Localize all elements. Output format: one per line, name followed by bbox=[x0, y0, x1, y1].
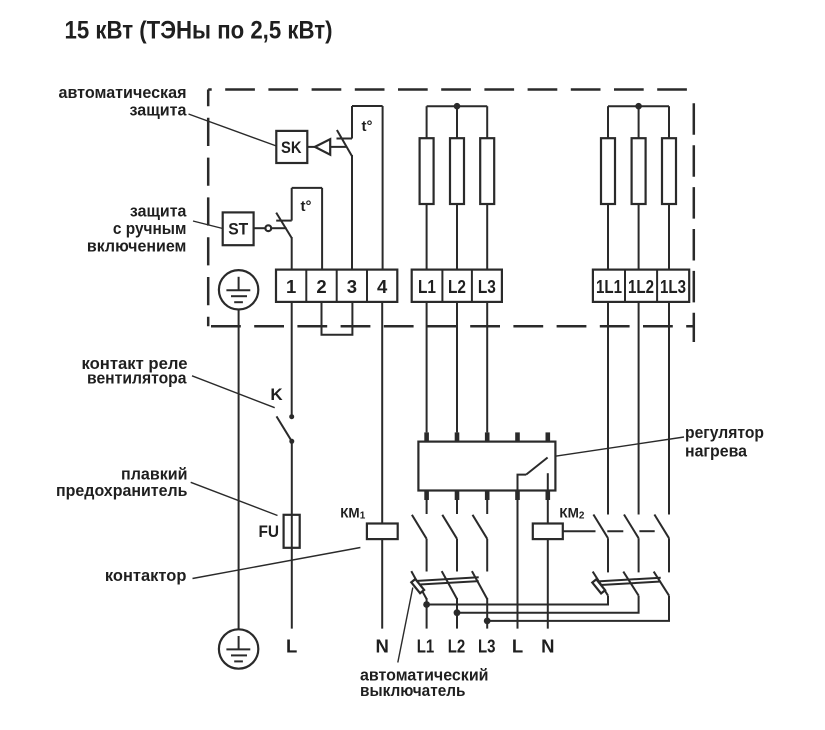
regulator internal switch bbox=[518, 475, 527, 491]
pointer to breaker handle bbox=[398, 588, 413, 663]
junction dot L2 bus bbox=[454, 609, 461, 616]
KM2 contact pole 1 bbox=[593, 515, 608, 573]
KM1 contact pole 3 bbox=[473, 500, 488, 572]
breaker left pole 3 arm bbox=[472, 571, 487, 599]
bus L2 to KM2 breaker pole2 bbox=[457, 596, 639, 613]
svg-text:автоматическая: автоматическая bbox=[59, 83, 187, 102]
wire 1L2 down bbox=[638, 302, 640, 515]
dashed enclosure left border bbox=[207, 90, 210, 327]
svg-text:2: 2 bbox=[316, 276, 326, 297]
wire triangle to SK thermostat arm bbox=[330, 146, 346, 148]
wire L1 to regulator pin1 bbox=[426, 302, 428, 433]
dashed enclosure bottom border bbox=[208, 325, 694, 328]
bank1 phase A wire upper bbox=[426, 106, 428, 138]
heating element R4 bbox=[601, 138, 615, 204]
svg-text:t°: t° bbox=[301, 198, 312, 215]
svg-text:защита: защита bbox=[130, 101, 188, 120]
svg-text:FU: FU bbox=[259, 522, 280, 541]
svg-text:контактор: контактор bbox=[105, 566, 187, 585]
svg-text:1: 1 bbox=[286, 276, 296, 297]
K contact arm bbox=[277, 416, 292, 441]
fixed contact stub bbox=[337, 138, 353, 140]
svg-text:защита: защита bbox=[130, 202, 187, 221]
t-box right leg to terminal 2 bbox=[321, 188, 323, 270]
svg-text:L3: L3 bbox=[478, 636, 496, 657]
node dot bank2 bbox=[635, 103, 642, 110]
contactor coil KM1 bbox=[367, 524, 398, 540]
wire L2 to regulator pin2 bbox=[456, 302, 458, 433]
pointer to SK bbox=[189, 114, 277, 146]
breaker left linkage double bar bbox=[413, 577, 479, 581]
svg-text:SK: SK bbox=[281, 139, 302, 157]
junction dot L1 bus bbox=[423, 601, 430, 608]
t-box left leg lower to terminal 3 bbox=[351, 155, 353, 270]
triangle (arrow contact) bbox=[315, 139, 330, 155]
breaker right pole 1 arm bbox=[593, 572, 608, 596]
KM2 contact pole 2 bbox=[624, 515, 639, 573]
svg-text:15 кВт (ТЭНы по 2,5 кВт): 15 кВт (ТЭНы по 2,5 кВт) bbox=[65, 17, 333, 45]
wire fuse to L bbox=[291, 548, 293, 629]
heating element R1 bbox=[420, 138, 434, 204]
regulator box bbox=[418, 442, 555, 491]
breaker left pole 2 arm bbox=[442, 571, 457, 599]
bank2 phase A wire upper bbox=[607, 106, 609, 138]
pointer to K contact bbox=[192, 376, 275, 408]
terminal block L1 L2 L3 bbox=[412, 270, 502, 302]
regulator top pin ticks bbox=[424, 432, 550, 441]
t-box right leg to terminal 4 bbox=[382, 106, 384, 270]
svg-text:регулятор: регулятор bbox=[685, 423, 764, 442]
ST box U-ST bbox=[223, 212, 254, 245]
wire KM2 coil to N bbox=[547, 539, 549, 629]
bank1 phase C wire upper bbox=[486, 106, 488, 138]
bank2 phase C wire upper bbox=[668, 106, 670, 138]
svg-text:нагрева: нагрева bbox=[685, 442, 748, 461]
breaker left handle bbox=[411, 579, 424, 593]
svg-text:1L2: 1L2 bbox=[628, 276, 654, 297]
breaker left pole 3 wire down bbox=[486, 598, 488, 629]
pointer to ST bbox=[193, 221, 223, 229]
heater bank 1 star bar bbox=[427, 105, 488, 107]
wire 1L3 down bbox=[668, 302, 670, 515]
switch arm bbox=[337, 130, 352, 156]
heating element R5 bbox=[632, 138, 646, 204]
svg-text:K: K bbox=[270, 385, 283, 404]
svg-text:N: N bbox=[541, 636, 554, 657]
svg-text:с ручным: с ручным bbox=[113, 219, 187, 238]
breaker left pole 1 arm bbox=[411, 571, 426, 599]
bank2 phase A wire lower bbox=[607, 204, 609, 270]
contactor coil KM2 bbox=[533, 524, 563, 540]
wire regulator pin4 down to L bbox=[517, 500, 519, 629]
svg-text:1L1: 1L1 bbox=[596, 276, 622, 297]
svg-text:3: 3 bbox=[347, 276, 357, 297]
node dot bank1 bbox=[454, 103, 461, 110]
t-box top edge bbox=[292, 187, 322, 189]
terminal block 1L1 1L2 1L3 bbox=[593, 270, 689, 302]
heater bank 2 star bar bbox=[608, 105, 669, 107]
breaker right linkage double bar bbox=[596, 578, 661, 582]
wire regulator pin5 down to KM2 coil bbox=[547, 500, 549, 524]
svg-text:1L3: 1L3 bbox=[660, 276, 686, 297]
svg-text:включением: включением bbox=[87, 237, 187, 256]
SK thermostat t-box bbox=[337, 106, 383, 270]
svg-text:N: N bbox=[376, 636, 389, 657]
breaker left pole 2 wire down bbox=[456, 598, 458, 629]
wire L3 to regulator pin3 bbox=[486, 302, 488, 433]
bank1 phase B wire upper bbox=[456, 106, 458, 138]
svg-text:L: L bbox=[286, 636, 297, 657]
fixed contact stub bbox=[276, 220, 292, 222]
fuse internal wire bbox=[291, 515, 293, 548]
fuse FU bbox=[284, 515, 300, 548]
pointer to fuse bbox=[191, 482, 278, 515]
svg-text:предохранитель: предохранитель bbox=[56, 481, 188, 500]
wire ground top to ground bottom bbox=[238, 310, 240, 630]
bank1 phase B wire lower bbox=[456, 204, 458, 270]
ground symbol bottom bbox=[219, 629, 258, 668]
pointer to KM1 coil bbox=[193, 548, 361, 579]
terminal block 1-4 bbox=[276, 270, 397, 302]
svg-text:L3: L3 bbox=[478, 276, 496, 297]
regulator bottom pin ticks bbox=[424, 491, 550, 501]
jumper terminals 2-3 bbox=[322, 302, 353, 335]
K contact lower dot bbox=[289, 439, 294, 444]
KM1 contact pole 1 bbox=[412, 500, 427, 572]
dashed enclosure top border bbox=[208, 88, 694, 91]
heating element R6 bbox=[662, 138, 676, 204]
wire SK to triangle bbox=[307, 146, 315, 148]
wire KM1 coil to N bbox=[381, 539, 383, 629]
junction dot L3 bus bbox=[484, 618, 491, 625]
heating element R2 bbox=[450, 138, 464, 204]
switch arm bbox=[276, 213, 292, 238]
svg-text:ST: ST bbox=[228, 221, 248, 239]
svg-text:L2: L2 bbox=[448, 636, 466, 657]
svg-text:4: 4 bbox=[377, 276, 388, 297]
heating element R3 bbox=[480, 138, 494, 204]
bank1 phase A wire lower bbox=[426, 204, 428, 270]
KM1 contact pole 2 bbox=[442, 500, 457, 572]
t-box top edge bbox=[352, 105, 383, 107]
KM2 contact pole 3 bbox=[654, 515, 669, 573]
bank2 phase B wire upper bbox=[638, 106, 640, 138]
bank2 phase C wire lower bbox=[668, 204, 670, 270]
svg-text:L1: L1 bbox=[417, 636, 435, 657]
K contact upper dot bbox=[289, 414, 294, 419]
breaker right pole 3 arm bbox=[654, 572, 669, 596]
bus L3 to KM2 breaker pole3 bbox=[487, 596, 669, 621]
t-box left leg lower to terminal 1 bbox=[291, 237, 293, 270]
bank2 phase B wire lower bbox=[638, 204, 640, 270]
svg-text:вентилятора: вентилятора bbox=[87, 369, 187, 388]
svg-text:L1: L1 bbox=[418, 276, 436, 297]
dashed enclosure right border bbox=[693, 103, 696, 342]
bank1 phase C wire lower bbox=[486, 204, 488, 270]
wire terminal1 down to K contact bbox=[291, 302, 293, 417]
t-box left leg upper bbox=[291, 188, 293, 221]
SK box U-SK bbox=[276, 131, 307, 163]
svg-text:выключатель: выключатель bbox=[360, 681, 466, 700]
pointer to regulator bbox=[555, 437, 684, 456]
breaker right pole 2 arm bbox=[623, 572, 638, 596]
wire 1L1 down bbox=[607, 302, 609, 515]
ST thermostat t-box bbox=[276, 188, 322, 270]
breaker left pole 1 wire down bbox=[426, 598, 428, 629]
svg-text:L: L bbox=[512, 636, 523, 657]
KM2 linkage dashes bbox=[563, 530, 596, 532]
wire circle to ST thermostat arm bbox=[272, 227, 287, 229]
bus L1 to KM2 breaker pole1 bbox=[427, 596, 608, 605]
circle contact bbox=[265, 225, 271, 231]
svg-text:L2: L2 bbox=[448, 276, 466, 297]
t-box left leg upper bbox=[351, 106, 353, 139]
svg-text:t°: t° bbox=[362, 118, 373, 135]
wire K contact to fuse bbox=[291, 441, 293, 515]
ground symbol top bbox=[219, 270, 258, 309]
breaker right handle bbox=[592, 579, 605, 593]
wire terminal4 down to KM1 coil bbox=[381, 302, 383, 524]
wire ST to circle contact bbox=[254, 227, 266, 229]
